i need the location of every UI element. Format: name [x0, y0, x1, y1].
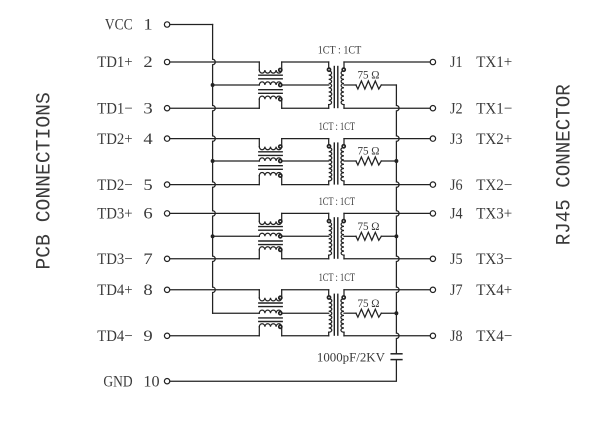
resistor R2 label 75 ohm — [357, 146, 379, 158]
common-mode choke L3 top winding — [259, 213, 281, 224]
choke L2 centre winding polarity dot — [279, 159, 282, 162]
transformer T1 primary polarity dot — [327, 68, 330, 71]
svg-text:VCC: VCC — [105, 17, 133, 34]
pin J6 TX2− label — [450, 177, 512, 194]
choke L4 bottom winding — [259, 324, 281, 336]
choke L2 top winding polarity dot — [279, 145, 282, 148]
choke L3 bottom winding polarity dot — [279, 248, 282, 251]
choke L3 centre winding polarity dot — [279, 235, 282, 238]
svg-text:TX2−: TX2− — [476, 177, 512, 194]
wire capacitor C1 to GND pin 10 — [170, 360, 397, 381]
svg-text:TX3−: TX3− — [476, 251, 512, 268]
wire VCC pin1 to bus — [170, 24, 213, 26]
pin 4 terminal — [164, 136, 169, 141]
svg-text:TD3−: TD3− — [97, 251, 132, 268]
transformer T2 core — [334, 143, 338, 184]
wire choke L2 to transformer T2 primary top — [282, 138, 329, 140]
wire choke L4 to transformer T4 primary bottom — [282, 335, 329, 337]
wire choke L2 to transformer T2 primary bottom — [282, 184, 329, 186]
transformer T2 secondary polarity dot — [342, 145, 345, 148]
pin J8 terminal — [430, 333, 435, 338]
svg-text:J3: J3 — [450, 131, 463, 148]
svg-text:J2: J2 — [450, 100, 463, 117]
svg-text:8: 8 — [143, 282, 152, 299]
wire T1 secondary bottom to pin J2 — [344, 107, 430, 109]
svg-text:75 Ω: 75 Ω — [357, 70, 379, 82]
VCC bus (vertical, hops over TD lines, ends at choke L4 centre tap) — [213, 25, 216, 314]
svg-text:J6: J6 — [450, 177, 463, 194]
transformer T3 primary winding — [329, 213, 332, 258]
transformer T1 secondary winding — [341, 62, 344, 108]
transformer T2 primary polarity dot — [327, 145, 330, 148]
choke L3 centre winding — [259, 233, 281, 236]
grounding bus (vertical, from R1 down to capacitor C1, hops over J lines) — [396, 85, 399, 353]
pin 7 terminal — [164, 256, 169, 261]
svg-text:TX1+: TX1+ — [476, 54, 512, 71]
transformer T3 primary polarity dot — [327, 220, 330, 223]
wire choke L2 to transformer T2 primary centre tap — [282, 160, 329, 162]
transformer T2 secondary winding — [341, 139, 344, 185]
wire choke L4 to transformer T4 primary centre tap — [282, 312, 329, 314]
pin 9 terminal — [164, 333, 169, 338]
pin J8 TX4− label — [450, 328, 512, 345]
transformer T4 primary winding — [329, 290, 332, 336]
pin 5 terminal — [164, 182, 169, 187]
wire resistor R3 to grounding bus — [381, 235, 396, 237]
svg-text:RJ45 CONNECTOR: RJ45 CONNECTOR — [554, 84, 577, 245]
transformer T1 primary winding — [329, 62, 332, 108]
svg-text:TD1−: TD1− — [97, 100, 132, 117]
svg-text:J5: J5 — [450, 251, 463, 268]
wire centre tap ct2 bus to choke L2 — [213, 160, 260, 162]
wire TD2+ pin to choke L2 — [170, 138, 259, 140]
svg-text:9: 9 — [143, 328, 152, 345]
common-mode choke L2 top winding — [259, 139, 281, 150]
svg-text:TX1−: TX1− — [476, 100, 512, 117]
transformer T2 primary winding — [329, 139, 332, 185]
node: grounding bus junction at R3 — [394, 234, 398, 238]
svg-text:J4: J4 — [450, 206, 463, 223]
node: VCC bus junction ct2 — [211, 159, 215, 163]
transformer T1 core — [334, 67, 338, 108]
transformer T1 secondary polarity dot — [342, 68, 345, 71]
svg-text:5: 5 — [143, 177, 152, 194]
svg-text:GND: GND — [103, 373, 132, 390]
wire choke L3 to transformer T3 primary top — [282, 212, 329, 214]
choke L1 bottom winding polarity dot — [279, 98, 282, 101]
transformer T2 label 1CT:1CT — [319, 119, 356, 133]
wire choke L3 to transformer T3 primary centre tap — [282, 235, 329, 237]
choke L2 bottom winding polarity dot — [279, 174, 282, 177]
pin 4 TD2+ label — [97, 131, 152, 148]
wire choke L3 to transformer T3 primary bottom — [282, 258, 329, 260]
svg-text:10: 10 — [143, 373, 159, 390]
svg-text:1000pF/2KV: 1000pF/2KV — [317, 350, 385, 364]
wire T2 secondary centre tap to resistor R2 — [344, 160, 356, 162]
common-mode choke L4 top winding — [259, 290, 281, 301]
wire T3 secondary centre tap to resistor R3 — [344, 235, 356, 237]
svg-text:TD2+: TD2+ — [97, 131, 132, 148]
choke L4 centre winding polarity dot — [279, 312, 282, 315]
svg-text:1CT : 1CT: 1CT : 1CT — [319, 270, 356, 284]
svg-text:TD2−: TD2− — [97, 177, 132, 194]
pin 1 terminal — [164, 22, 169, 27]
transformer T4 label 1CT:1CT — [319, 270, 356, 284]
wire choke L1 to transformer T1 primary bottom — [282, 107, 329, 109]
pin J1 terminal — [430, 59, 435, 64]
svg-text:1CT : 1CT: 1CT : 1CT — [318, 42, 362, 56]
resistor R1 75 ohm zigzag — [356, 81, 381, 89]
pin J6 terminal — [430, 182, 435, 187]
wire T2 secondary bottom to pin J6 — [344, 184, 430, 186]
svg-text:2: 2 — [143, 54, 152, 71]
wire T2 secondary top to pin J3 — [344, 138, 430, 140]
pin 7 TD3− label — [97, 251, 152, 268]
svg-text:TD4−: TD4− — [97, 328, 132, 345]
node: VCC bus junction ct1 — [211, 83, 215, 87]
wire T3 secondary bottom to pin J5 — [344, 258, 430, 260]
pin 1 VCC label — [105, 17, 153, 34]
wire T3 secondary top to pin J4 — [344, 212, 430, 214]
choke L4 core (upper pair) — [259, 303, 282, 307]
choke L3 core (upper pair) — [259, 227, 282, 231]
pin 2 TD1+ label — [97, 54, 152, 71]
svg-text:6: 6 — [143, 206, 152, 223]
left rail title: PCB CONNECTIONS — [33, 92, 56, 269]
node: grounding bus junction at R2 — [394, 159, 398, 163]
right rail title: RJ45 CONNECTOR — [554, 84, 577, 245]
pin 2 terminal — [164, 59, 169, 64]
svg-text:PCB CONNECTIONS: PCB CONNECTIONS — [33, 92, 56, 269]
pin J2 terminal — [430, 106, 435, 111]
svg-text:3: 3 — [143, 100, 152, 117]
pin J5 terminal — [430, 256, 435, 261]
pin J2 TX1− label — [450, 100, 512, 117]
wire VCC bus corner to choke L4 centre tap — [213, 312, 260, 314]
pin 8 TD4+ label — [97, 282, 152, 299]
pin J4 TX3+ label — [450, 206, 512, 223]
pin 6 terminal — [164, 211, 169, 216]
wire T4 secondary centre tap to resistor R4 — [344, 312, 356, 314]
svg-text:1CT : 1CT: 1CT : 1CT — [319, 119, 356, 133]
transformer T4 secondary winding — [341, 290, 344, 336]
svg-text:1: 1 — [143, 17, 152, 34]
wire choke L4 to transformer T4 primary top — [282, 289, 329, 291]
transformer T3 core — [334, 218, 338, 258]
svg-text:4: 4 — [143, 131, 152, 148]
pin J4 terminal — [430, 211, 435, 216]
resistor R3 75 ohm zigzag — [356, 232, 381, 240]
svg-text:75 Ω: 75 Ω — [357, 146, 379, 158]
wire TD2- pin to choke L2 — [170, 184, 259, 186]
svg-text:TX2+: TX2+ — [476, 131, 512, 148]
pin J3 TX2+ label — [450, 131, 512, 148]
wire resistor R4 to grounding bus — [381, 312, 396, 314]
wire resistor R2 to grounding bus — [381, 160, 396, 162]
pin J1 TX1+ label — [450, 54, 512, 71]
choke L3 top winding polarity dot — [279, 220, 282, 223]
choke L2 core (lower pair) — [259, 166, 282, 170]
pin 9 TD4− label — [97, 328, 152, 345]
svg-text:TX4+: TX4+ — [476, 282, 512, 299]
pin J5 TX3− label — [450, 251, 512, 268]
choke L1 centre winding polarity dot — [279, 83, 282, 86]
wire choke L1 to transformer T1 primary centre tap — [282, 84, 329, 86]
pin 3 terminal — [164, 106, 169, 111]
choke L3 core (lower pair) — [259, 241, 282, 245]
wire centre tap ct1 bus to choke L1 — [213, 84, 260, 86]
choke L1 core (lower pair) — [259, 90, 282, 94]
wire T1 secondary top to pin J1 — [344, 61, 430, 63]
choke L4 core (lower pair) — [259, 318, 282, 322]
resistor R2 75 ohm zigzag — [356, 157, 381, 165]
transformer T4 core — [334, 294, 338, 335]
choke L1 top winding polarity dot — [279, 68, 282, 71]
choke L2 centre winding — [259, 158, 281, 161]
transformer T4 primary polarity dot — [327, 296, 330, 299]
node: VCC bus junction ct3 — [211, 234, 215, 238]
pin 10 GND label — [103, 373, 159, 390]
pin 10 terminal — [164, 379, 169, 384]
pin J7 terminal — [430, 287, 435, 292]
wire TD1+ pin to choke L1 — [170, 61, 259, 63]
choke L3 bottom winding — [259, 247, 281, 259]
wire choke L1 to transformer T1 primary top — [282, 61, 329, 63]
transformer T3 secondary polarity dot — [342, 220, 345, 223]
choke L4 centre winding — [259, 310, 281, 313]
wire TD4+ pin to choke L4 — [170, 289, 259, 291]
choke L1 core (upper pair) — [259, 75, 282, 79]
svg-text:J8: J8 — [450, 328, 463, 345]
svg-text:7: 7 — [143, 251, 152, 268]
wire TD3+ pin to choke L3 — [170, 212, 259, 214]
svg-text:TD1+: TD1+ — [97, 54, 132, 71]
resistor R4 label 75 ohm — [357, 298, 379, 310]
transformer T4 secondary polarity dot — [342, 296, 345, 299]
pin 3 TD1− label — [97, 100, 152, 117]
resistor R4 75 ohm zigzag — [356, 309, 381, 317]
resistor R3 label 75 ohm — [357, 221, 379, 233]
svg-text:J1: J1 — [450, 54, 463, 71]
wire centre tap ct3 bus to choke L3 — [213, 235, 260, 237]
transformer T3 label 1CT:1CT — [319, 194, 356, 208]
svg-text:TX4−: TX4− — [476, 328, 512, 345]
pin J3 terminal — [430, 136, 435, 141]
svg-text:TX3+: TX3+ — [476, 206, 512, 223]
svg-text:J7: J7 — [450, 282, 463, 299]
choke L2 bottom winding — [259, 173, 281, 185]
choke L4 bottom winding polarity dot — [279, 325, 282, 328]
pin 8 terminal — [164, 287, 169, 292]
resistor R1 label 75 ohm — [357, 70, 379, 82]
svg-text:TD3+: TD3+ — [97, 206, 132, 223]
common-mode choke L1 top winding — [259, 62, 281, 73]
choke L1 centre winding — [259, 82, 281, 85]
wire TD4- pin to choke L4 — [170, 335, 259, 337]
choke L4 top winding polarity dot — [279, 296, 282, 299]
wire TD1- pin to choke L1 — [170, 107, 259, 109]
transformer T3 secondary winding — [341, 213, 344, 258]
svg-text:75 Ω: 75 Ω — [357, 221, 379, 233]
choke L1 bottom winding — [259, 96, 281, 108]
wire TD3- pin to choke L3 — [170, 258, 259, 260]
svg-text:1CT : 1CT: 1CT : 1CT — [319, 194, 356, 208]
transformer T1 label 1CT:1CT — [318, 42, 362, 56]
wire T4 secondary bottom to pin J8 — [344, 335, 430, 337]
pin 5 TD2− label — [97, 177, 152, 194]
capacitor C1 label 1000pF/2KV — [317, 350, 385, 364]
pin J7 TX4+ label — [450, 282, 512, 299]
svg-text:75 Ω: 75 Ω — [357, 298, 379, 310]
choke L2 core (upper pair) — [259, 152, 282, 156]
wire T1 secondary centre tap to resistor R1 — [344, 84, 356, 86]
capacitor C1 plates — [391, 354, 402, 360]
node: grounding bus junction at R4 — [394, 311, 398, 315]
wire resistor R1 to grounding bus — [381, 84, 396, 86]
pin 6 TD3+ label — [97, 206, 152, 223]
svg-text:TD4+: TD4+ — [97, 282, 132, 299]
wire T4 secondary top to pin J7 — [344, 289, 430, 291]
